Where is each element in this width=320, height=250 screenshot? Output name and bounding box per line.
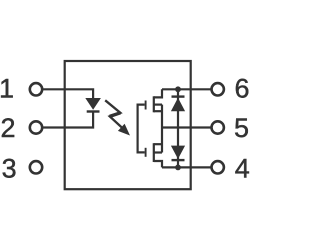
- MOSFET Q2 source stub: [154, 143, 162, 145]
- wire Q2 source to common: [161, 128, 163, 153]
- pin 3 terminal: [30, 161, 42, 173]
- body diode D2 cathode bar: [172, 95, 185, 97]
- junction node bottom: [175, 165, 181, 171]
- wire top rail to pin 6: [162, 88, 211, 90]
- body diode D2 triangle: [171, 98, 185, 111]
- MOSFET Q2 gate bar: [145, 148, 147, 157]
- wire middle rail to pin 5: [162, 126, 211, 128]
- pin 1 terminal: [30, 83, 42, 95]
- LED D1 triangle: [85, 98, 101, 110]
- MOSFET Q1 channel bar: [153, 96, 155, 112]
- gate tie bracket: [138, 105, 145, 153]
- svg-text:2: 2: [1, 113, 16, 143]
- wire pin1 to LED anode: [43, 89, 93, 98]
- MOSFET Q2 bulk stub: [154, 151, 162, 153]
- pin 6 terminal: [212, 83, 224, 95]
- MOSFET Q2 channel bar: [153, 143, 155, 162]
- wire Q1 source to common: [161, 105, 163, 128]
- junction node top: [175, 86, 181, 92]
- wire LED cathode to pin2: [43, 112, 93, 128]
- pin 2 terminal: [30, 121, 42, 133]
- light emission arrow: [105, 100, 130, 135]
- MOSFET Q1 gate bar: [145, 101, 147, 110]
- pin 5 terminal: [212, 121, 224, 133]
- LED D1 cathode bar: [87, 110, 100, 112]
- body diode D3 triangle: [171, 146, 185, 159]
- MOSFET Q1 drain stub: [154, 89, 162, 97]
- MOSFET Q1 bulk stub: [154, 103, 162, 105]
- svg-text:6: 6: [235, 74, 250, 104]
- wire bottom rail to pin 4: [162, 166, 211, 168]
- pin 4 terminal: [212, 161, 224, 173]
- MOSFET Q2 drain stub: [154, 161, 162, 167]
- body diode chain wire: [177, 89, 179, 167]
- svg-text:4: 4: [235, 154, 250, 184]
- MOSFET Q1 source stub: [154, 110, 162, 112]
- svg-text:3: 3: [2, 154, 17, 184]
- svg-text:5: 5: [234, 113, 249, 143]
- svg-text:1: 1: [0, 74, 14, 104]
- body diode D3 cathode bar: [172, 159, 185, 161]
- IC package outline: [65, 61, 191, 189]
